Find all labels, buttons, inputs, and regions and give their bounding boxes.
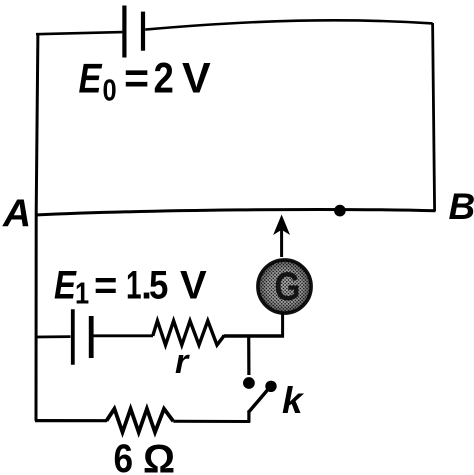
wire top-left segment to battery E0	[36, 32, 122, 34]
node junction dot on AB wire	[334, 205, 346, 217]
switch k blade	[248, 390, 267, 413]
wire battery E1 to resistor r	[94, 334, 154, 337]
wire middle row from left vertical to battery E1	[35, 335, 71, 338]
svg-text:1: 1	[126, 264, 142, 308]
wire stub down to switch k left terminal	[247, 336, 250, 375]
svg-text:E: E	[79, 55, 103, 102]
wire A to B (potentiometer wire)	[35, 209, 436, 215]
svg-text:V: V	[182, 55, 211, 103]
svg-text:6: 6	[114, 436, 134, 475]
battery E0 left plate	[122, 6, 126, 58]
wire left vertical (A branch)	[36, 34, 38, 421]
svg-text:E: E	[54, 262, 77, 307]
svg-text:Ω: Ω	[143, 438, 175, 475]
svg-text:=: =	[94, 263, 117, 307]
resistor r zigzag	[153, 321, 224, 345]
svg-text:=: =	[124, 55, 149, 103]
battery E1 right plate	[89, 316, 94, 358]
svg-text:5: 5	[149, 262, 168, 307]
switch k right terminal dot	[265, 381, 276, 392]
svg-text:1: 1	[75, 276, 89, 311]
svg-text:B: B	[449, 186, 474, 227]
svg-text:r: r	[175, 343, 190, 381]
wire top-right segment from battery E0 to corner B side	[145, 20, 432, 29]
svg-text:k: k	[282, 380, 305, 421]
wire galvanometer bottom to middle row	[222, 313, 283, 336]
wire resistor 6ohm to switch	[173, 420, 250, 423]
battery E1 left plate	[71, 309, 75, 365]
svg-text:G: G	[274, 264, 300, 308]
galvanometer G body	[258, 260, 311, 313]
wire resistor r to galvanometer junction	[224, 334, 283, 337]
svg-text:V: V	[180, 263, 207, 307]
wire bottom from left vertical to resistor 6ohm	[35, 419, 107, 422]
label E1 = 1.5 V	[54, 262, 207, 311]
svg-text:0: 0	[103, 73, 117, 108]
switch k blade stub to bottom wire	[247, 411, 250, 423]
switch k left terminal dot	[243, 377, 255, 389]
wire right vertical (B branch)	[433, 23, 435, 211]
label E0 = 2 V	[79, 55, 212, 109]
resistor 6 ohm zigzag	[107, 409, 174, 432]
arrow sliding contact	[280, 226, 283, 257]
battery E0 right plate	[141, 12, 145, 51]
svg-text:A: A	[2, 192, 31, 235]
svg-text:2: 2	[154, 55, 174, 102]
